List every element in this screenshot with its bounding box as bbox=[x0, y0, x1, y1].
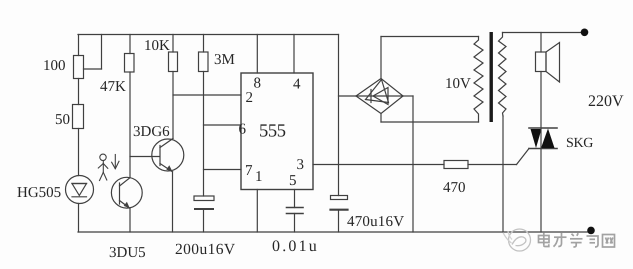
wire pin4 to rail bbox=[293, 35, 295, 74]
resistor 100 bbox=[74, 56, 84, 79]
wire pin8 to rail bbox=[256, 35, 258, 74]
wire bridge top to transformer primary bbox=[381, 37, 479, 79]
svg-text:6: 6 bbox=[239, 122, 247, 138]
svg-text:3M: 3M bbox=[214, 52, 235, 68]
wire ground rail bbox=[78, 231, 591, 233]
svg-text:555: 555 bbox=[259, 122, 286, 142]
wire triac to ground rail bbox=[540, 149, 542, 233]
transistor 3DG6 bbox=[152, 139, 184, 172]
svg-text:4: 4 bbox=[293, 77, 301, 93]
op-amp U1 555 timer bbox=[241, 73, 313, 190]
transformer T1 winding 10V bbox=[474, 37, 483, 123]
svg-text:470u16V: 470u16V bbox=[347, 214, 404, 230]
node mains terminal L bbox=[581, 29, 589, 37]
wire 220V winding top to mains terminal bbox=[503, 32, 585, 34]
wire HG505 to ground rail bbox=[78, 204, 80, 233]
wire node B to 3DG6 base bbox=[130, 156, 160, 158]
svg-text:SKG: SKG bbox=[566, 136, 593, 151]
resistor 470 bbox=[444, 161, 468, 169]
wire 3DU5 emitter to ground rail bbox=[129, 208, 131, 232]
resistor 3M bbox=[199, 52, 209, 72]
arrow light direction bbox=[112, 155, 119, 169]
wire pin6 threshold bbox=[204, 124, 242, 126]
wire 47K to phototransistor 3DU5 collector bbox=[129, 72, 131, 178]
transformer core bbox=[490, 32, 493, 122]
wire pin5 to capacitor C2 bbox=[294, 190, 296, 208]
svg-text:200u16V: 200u16V bbox=[175, 241, 236, 258]
svg-text:7: 7 bbox=[245, 163, 253, 179]
wire rail to resistor 3M bbox=[203, 35, 205, 53]
wire C3 to ground rail bbox=[338, 210, 340, 232]
resistor 50 bbox=[73, 105, 84, 129]
svg-text:3: 3 bbox=[297, 157, 305, 173]
svg-text:10K: 10K bbox=[144, 38, 170, 54]
svg-text:8: 8 bbox=[254, 76, 262, 92]
resistor 47K bbox=[125, 54, 135, 73]
svg-text:10V: 10V bbox=[445, 76, 471, 92]
capacitor C3 470u16V bbox=[331, 196, 348, 210]
node mains terminal N bbox=[587, 227, 595, 235]
wire resistor 470 to gate bbox=[468, 164, 517, 166]
wire pin1 to ground rail bbox=[256, 190, 258, 233]
capacitor C1 200u16V bbox=[194, 196, 214, 209]
photodiode HG505 bbox=[66, 176, 94, 204]
transformer winding 220V side bbox=[499, 33, 507, 117]
svg-text:5: 5 bbox=[289, 173, 297, 189]
wire left branch from rail to resistor 100 bbox=[78, 35, 80, 56]
svg-text:100: 100 bbox=[43, 58, 66, 74]
wire node D to bridge left bbox=[339, 95, 357, 97]
triac SKG bbox=[529, 128, 557, 149]
wire 3DG6 emitter to ground rail bbox=[172, 172, 174, 232]
svg-text:HG505: HG505 bbox=[17, 185, 61, 201]
bridge rectifier D1 bbox=[356, 79, 403, 114]
wire gate diagonal bbox=[517, 149, 530, 165]
wire rail to resistor 47K bbox=[129, 35, 131, 54]
resistor 10K bbox=[169, 52, 178, 72]
wire speaker to triac bbox=[540, 72, 542, 129]
wire 220V winding bottom to ground rail bbox=[502, 116, 504, 232]
wire mains to speaker bbox=[540, 33, 542, 53]
wire 10K to transistor 3DG6 collector bbox=[172, 72, 174, 139]
wire +V rail corner down to filter cap bbox=[338, 35, 340, 196]
wire C1 to ground rail bbox=[203, 209, 205, 232]
wire bridge bottom to transformer primary return bbox=[381, 114, 479, 123]
wire resistor 50 to photodiode HG505 bbox=[78, 129, 80, 176]
svg-text:50: 50 bbox=[55, 112, 70, 128]
svg-text:3DG6: 3DG6 bbox=[133, 124, 170, 140]
svg-text:470: 470 bbox=[443, 180, 466, 196]
svg-text:0.01u: 0.01u bbox=[272, 238, 319, 255]
capacitor C2 0.01u bbox=[287, 208, 304, 214]
wire node C pin2 trigger bbox=[173, 94, 241, 96]
svg-text:47K: 47K bbox=[100, 79, 126, 95]
svg-text:1: 1 bbox=[255, 169, 263, 185]
wire bridge right to ground rail bbox=[403, 96, 413, 232]
svg-text:220V: 220V bbox=[588, 93, 624, 110]
watermark logo bbox=[503, 229, 531, 251]
speaker LS1 bbox=[536, 43, 560, 83]
wire 3M to timing node bbox=[203, 72, 205, 197]
wire rail to resistor 10K bbox=[172, 35, 174, 53]
wire top +V rail bbox=[78, 34, 339, 36]
wire stub node A (rail to resistor 100 side) bbox=[84, 35, 102, 70]
person icon light beam interruption bbox=[98, 154, 108, 180]
wire C2 to ground rail bbox=[294, 214, 296, 233]
wire pin3 output bbox=[313, 164, 444, 166]
wire pin7 discharge bbox=[204, 169, 242, 171]
svg-text:3DU5: 3DU5 bbox=[109, 245, 146, 261]
watermark text 电力学习网 bbox=[539, 233, 615, 247]
wire resistor 100 to resistor 50 bbox=[78, 79, 80, 105]
phototransistor 3DU5 bbox=[111, 177, 142, 208]
svg-text:2: 2 bbox=[246, 90, 254, 106]
